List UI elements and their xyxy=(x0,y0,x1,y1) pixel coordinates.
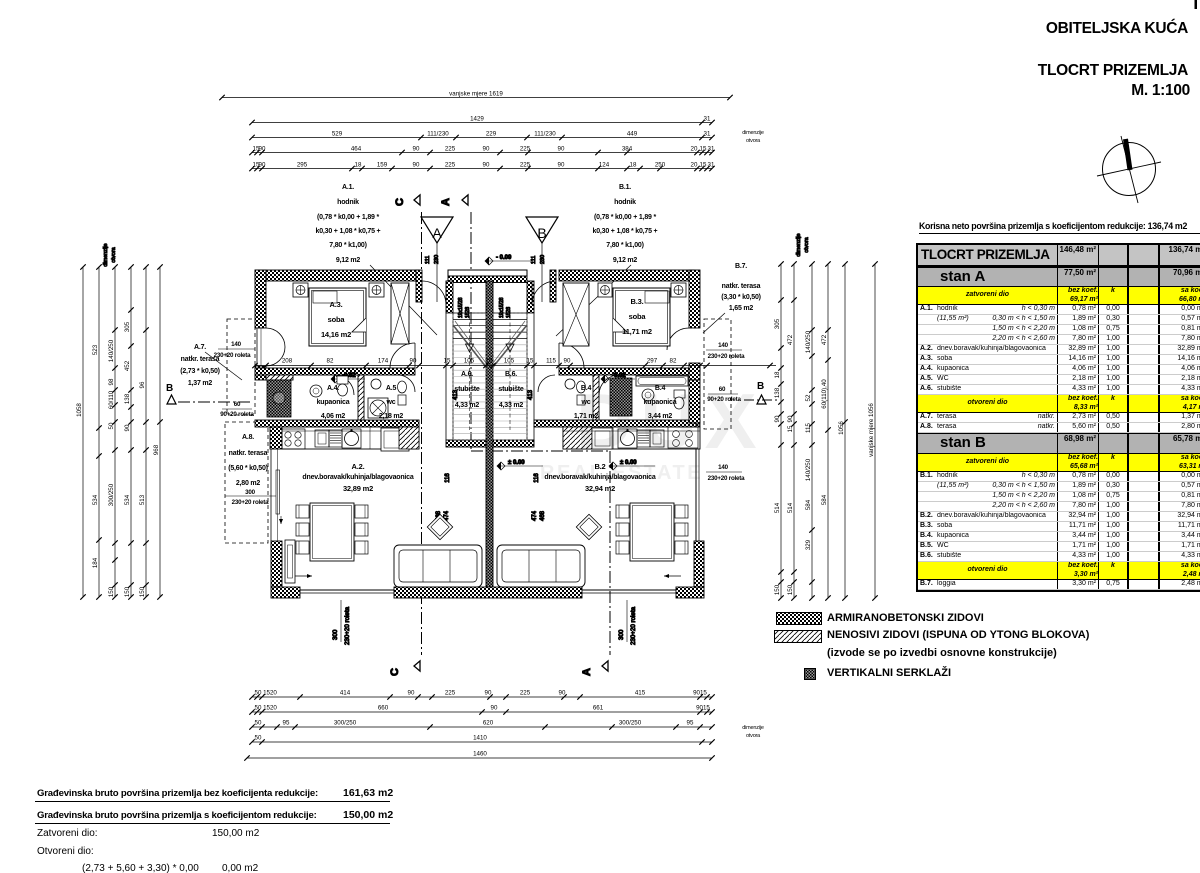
outer wall right kitchen corner xyxy=(689,380,700,423)
svg-text:50: 50 xyxy=(255,705,262,712)
svg-text:115: 115 xyxy=(805,423,812,433)
section line A-A jog xyxy=(471,450,610,452)
svg-text:(3,30 * k0,50): (3,30 * k0,50) xyxy=(721,294,761,301)
korisna neto heading xyxy=(919,221,1200,234)
leader B.7 xyxy=(703,313,725,333)
outer wall right upper xyxy=(689,270,700,328)
svg-text:140: 140 xyxy=(231,341,241,348)
svg-text:k0,30 + 1,08 * k0,75 +: k0,30 + 1,08 * k0,75 + xyxy=(316,228,381,235)
top dimension line 529/111/229 xyxy=(252,137,712,139)
level marker bath A xyxy=(331,375,339,383)
washbasin A4 xyxy=(310,385,322,397)
nightstand A left xyxy=(293,283,308,297)
fridge B xyxy=(563,427,592,449)
outer wall top B xyxy=(559,270,694,281)
right dim line vanjske mjere 1056 xyxy=(874,264,876,598)
svg-text:225: 225 xyxy=(445,690,456,697)
svg-text:50: 50 xyxy=(255,690,262,697)
svg-text:otvora: otvora xyxy=(746,733,761,739)
svg-text:534: 534 xyxy=(124,494,131,505)
left dim line 1058 xyxy=(82,267,84,597)
svg-text:B.6.: B.6. xyxy=(505,371,517,378)
outer wall top A xyxy=(255,270,419,281)
bottom left corner wall xyxy=(271,587,300,598)
bottom left corner wall vertical xyxy=(271,541,282,587)
svg-text:90: 90 xyxy=(774,415,781,422)
svg-text:90: 90 xyxy=(124,424,131,431)
svg-text:90: 90 xyxy=(559,690,566,697)
terrace A.8 dashed outline xyxy=(225,422,268,543)
svg-text:584: 584 xyxy=(821,494,828,505)
svg-text:230+20 roleta: 230+20 roleta xyxy=(708,475,746,482)
svg-text:90+20 roleta: 90+20 roleta xyxy=(220,411,254,418)
left dim line 140-250 col xyxy=(114,267,116,597)
svg-text:90: 90 xyxy=(413,145,420,152)
svg-text:dimenzije: dimenzije xyxy=(742,725,764,731)
right dim line 140-250/115 xyxy=(811,264,813,598)
door jamb wall B entry xyxy=(550,270,556,302)
svg-text:C: C xyxy=(394,198,406,206)
svg-text:225: 225 xyxy=(520,145,531,152)
door A balcony french upper xyxy=(256,328,258,366)
svg-text:452: 452 xyxy=(124,360,131,371)
svg-text:15: 15 xyxy=(700,145,707,152)
kitchen counter B xyxy=(563,427,700,449)
svg-text:32,89 m2: 32,89 m2 xyxy=(343,484,373,493)
svg-text:225: 225 xyxy=(445,161,456,168)
sofa A xyxy=(394,545,482,587)
svg-text:A: A xyxy=(581,668,593,676)
svg-text:90: 90 xyxy=(485,690,492,697)
svg-text:A.5: A.5 xyxy=(386,385,397,392)
svg-text:31: 31 xyxy=(704,115,711,122)
left dim line 523/534/184 xyxy=(98,267,100,597)
right dim line 1056 xyxy=(844,264,846,598)
svg-text:413: 413 xyxy=(528,389,534,400)
outer wall right mid xyxy=(689,363,700,380)
svg-text:18: 18 xyxy=(355,161,362,168)
top dimension line 1429+31 xyxy=(252,122,712,124)
svg-text:dnev.boravak/kuhinja/blagovaon: dnev.boravak/kuhinja/blagovaonica xyxy=(302,474,413,481)
svg-text:2,18 m2: 2,18 m2 xyxy=(379,413,404,420)
svg-text:529: 529 xyxy=(332,130,343,137)
svg-text:A.8.: A.8. xyxy=(242,434,254,441)
bathroom bottom wall A xyxy=(255,420,419,427)
sliding door bottom right xyxy=(664,575,681,577)
svg-text:111/230: 111/230 xyxy=(427,130,449,137)
svg-text:(0,78 * k0,00 + 1,89 *: (0,78 * k0,00 + 1,89 * xyxy=(317,214,379,221)
door B bedroom xyxy=(559,343,584,368)
svg-text:20: 20 xyxy=(691,145,698,152)
svg-text:140/250: 140/250 xyxy=(805,330,812,353)
svg-text:B.7.: B.7. xyxy=(735,263,747,270)
svg-text:31: 31 xyxy=(704,130,711,137)
svg-text:111: 111 xyxy=(425,256,431,264)
svg-text:otvora: otvora xyxy=(111,246,117,262)
svg-text:150: 150 xyxy=(108,586,115,597)
svg-text:514: 514 xyxy=(787,502,794,513)
svg-text:60: 60 xyxy=(234,401,241,408)
svg-text:otvora: otvora xyxy=(746,138,761,144)
svg-text:1056: 1056 xyxy=(838,421,845,435)
svg-text:32,94 m2: 32,94 m2 xyxy=(585,484,615,493)
svg-text:174: 174 xyxy=(378,358,389,365)
svg-text:14,16 m2: 14,16 m2 xyxy=(321,330,351,339)
svg-text:1528: 1528 xyxy=(465,307,471,318)
hob B xyxy=(668,427,698,448)
nightstand B left xyxy=(598,283,612,297)
bottom right corner wall vertical xyxy=(694,541,704,587)
svg-text:60(110),40: 60(110),40 xyxy=(821,379,828,409)
svg-text:514: 514 xyxy=(774,502,781,513)
svg-text:111: 111 xyxy=(531,256,537,264)
top dimension line 295/18/159 xyxy=(252,168,712,170)
svg-text:534: 534 xyxy=(92,494,99,505)
svg-text:50: 50 xyxy=(255,735,262,742)
svg-text:468: 468 xyxy=(540,510,546,521)
svg-text:9,12 m2: 9,12 m2 xyxy=(336,257,361,264)
svg-text:4,33 m2: 4,33 m2 xyxy=(499,402,524,409)
loggia B.7 dashed outline xyxy=(704,319,731,429)
door A wc xyxy=(398,375,415,392)
svg-text:98: 98 xyxy=(108,378,115,385)
svg-text:B: B xyxy=(537,225,546,241)
bathtub B4 xyxy=(636,376,688,386)
nightstand B right xyxy=(671,283,686,297)
svg-text:vanjske mjere 1056: vanjske mjere 1056 xyxy=(868,403,875,457)
level marker living A xyxy=(497,462,505,470)
washbasin B4 xyxy=(642,389,654,401)
svg-text:90: 90 xyxy=(259,161,266,168)
svg-text:300/250: 300/250 xyxy=(108,483,115,506)
interior wall below bedroom B xyxy=(559,368,700,375)
svg-text:250: 250 xyxy=(655,161,666,168)
leader B.1 xyxy=(556,265,631,336)
svg-text:1,65 m2: 1,65 m2 xyxy=(729,305,754,312)
svg-text:9015: 9015 xyxy=(693,690,707,697)
compass north arrow xyxy=(1097,136,1161,203)
svg-text:90: 90 xyxy=(564,358,571,365)
svg-text:230+20 roleta: 230+20 roleta xyxy=(344,606,351,645)
legend: reinforced concrete walls xyxy=(776,612,822,625)
svg-text:2,80 m2: 2,80 m2 xyxy=(236,480,261,487)
svg-text:523: 523 xyxy=(92,344,99,355)
svg-text:19x15/28: 19x15/28 xyxy=(499,297,505,318)
svg-text:295: 295 xyxy=(297,161,308,168)
svg-text:305: 305 xyxy=(774,318,781,329)
svg-text:18: 18 xyxy=(630,161,637,168)
svg-text:hodnik: hodnik xyxy=(614,199,636,206)
armchair B rotated xyxy=(576,514,601,539)
svg-text:660: 660 xyxy=(378,705,389,712)
svg-text:natkr. terasa: natkr. terasa xyxy=(722,283,761,290)
svg-text:A: A xyxy=(432,225,442,241)
elevation marker triangle A xyxy=(421,217,453,243)
door A entry xyxy=(422,281,446,305)
bottom dim line 414/225 xyxy=(252,696,712,698)
svg-text:90: 90 xyxy=(483,161,490,168)
svg-text:- 0.09: - 0.09 xyxy=(496,255,512,261)
svg-text:384: 384 xyxy=(622,145,633,152)
door A balcony french lower xyxy=(266,347,285,366)
svg-text:1520: 1520 xyxy=(263,690,277,697)
staircase A.6 treads xyxy=(453,313,486,440)
svg-text:225: 225 xyxy=(445,145,456,152)
kitchen divider lines A xyxy=(282,430,419,432)
outer wall left mid xyxy=(255,366,266,380)
dining table B xyxy=(630,503,674,561)
door B entry xyxy=(532,281,556,305)
svg-text:300/250: 300/250 xyxy=(334,720,357,727)
level marker bath B xyxy=(601,375,609,383)
svg-text:A.6.: A.6. xyxy=(461,371,473,378)
svg-text:stubište: stubište xyxy=(454,386,480,393)
svg-text:B: B xyxy=(166,383,173,394)
svg-text:k0,30 + 1,08 * k0,75 +: k0,30 + 1,08 * k0,75 + xyxy=(593,228,658,235)
svg-text:140: 140 xyxy=(718,342,728,349)
svg-text:230: 230 xyxy=(540,255,546,264)
svg-text:329: 329 xyxy=(805,539,812,550)
svg-text:9015: 9015 xyxy=(696,705,710,712)
fridge A xyxy=(381,428,409,451)
svg-text:15: 15 xyxy=(700,161,707,168)
svg-text:82: 82 xyxy=(670,358,677,365)
svg-text:115: 115 xyxy=(546,358,556,365)
svg-text:513: 513 xyxy=(139,494,146,505)
sink A xyxy=(315,430,329,447)
svg-text:159: 159 xyxy=(377,161,388,168)
door A bedroom xyxy=(390,343,415,368)
bathroom partition B45 xyxy=(593,375,599,420)
sliding door bottom left xyxy=(295,575,312,577)
left dim line 305/452/138 xyxy=(130,267,132,597)
svg-text:230+20 roleta: 230+20 roleta xyxy=(630,606,637,645)
left dim line 968 xyxy=(159,267,161,597)
interior wall below bedroom A xyxy=(255,368,415,375)
top dimension line 464/90/225 xyxy=(252,152,712,154)
svg-text:15: 15 xyxy=(486,358,493,365)
svg-text:50: 50 xyxy=(255,720,262,727)
svg-text:90: 90 xyxy=(413,161,420,168)
svg-text:C: C xyxy=(389,668,401,676)
svg-text:A: A xyxy=(440,198,452,206)
outer wall left upper xyxy=(255,270,266,328)
wardrobe B xyxy=(563,283,589,346)
top dimension line vanjske mjere 1619 xyxy=(222,97,730,99)
svg-text:300: 300 xyxy=(332,629,339,640)
svg-text:1528: 1528 xyxy=(506,307,512,318)
svg-text:105: 105 xyxy=(504,358,515,365)
svg-text:(5,60 * k0,50): (5,60 * k0,50) xyxy=(228,465,268,472)
svg-text:584: 584 xyxy=(805,499,812,510)
svg-text:414: 414 xyxy=(340,690,351,697)
svg-text:1460: 1460 xyxy=(473,751,487,758)
svg-text:474: 474 xyxy=(532,510,538,521)
svg-text:464: 464 xyxy=(351,145,362,152)
bottom dim line 300-250/620 xyxy=(252,726,712,728)
kitchen divider lines B xyxy=(563,430,700,432)
svg-text:96: 96 xyxy=(139,381,146,388)
svg-text:dimenzije: dimenzije xyxy=(796,233,802,256)
svg-text:90: 90 xyxy=(483,145,490,152)
level marker living B xyxy=(609,462,617,470)
svg-text:90: 90 xyxy=(410,358,417,365)
right dim line 472/514 xyxy=(793,264,795,598)
svg-text:90: 90 xyxy=(491,705,498,712)
svg-text:(0,78 * k0,00 + 1,89 *: (0,78 * k0,00 + 1,89 * xyxy=(594,214,656,221)
bottom left text block xyxy=(35,801,390,802)
svg-text:90: 90 xyxy=(408,690,415,697)
svg-text:230+20 roleta: 230+20 roleta xyxy=(214,352,252,359)
bed A xyxy=(309,288,366,346)
svg-text:449: 449 xyxy=(627,130,638,137)
svg-text:138: 138 xyxy=(774,387,781,398)
svg-text:208: 208 xyxy=(282,358,293,365)
svg-text:15: 15 xyxy=(527,358,534,365)
bottom wall center xyxy=(394,587,582,598)
svg-text:18: 18 xyxy=(774,371,781,378)
door B wc xyxy=(538,375,555,392)
stair bottom wall B xyxy=(493,440,534,447)
sofa B xyxy=(497,545,585,587)
svg-text:4,06 m2: 4,06 m2 xyxy=(321,413,346,420)
svg-text:1520: 1520 xyxy=(263,705,277,712)
svg-text:1,37 m2: 1,37 m2 xyxy=(188,380,213,387)
left dim line 513 xyxy=(145,267,147,597)
svg-text:A.7.: A.7. xyxy=(194,344,206,351)
svg-text:7,80 * k1,00): 7,80 * k1,00) xyxy=(606,242,644,249)
washbasin B5 xyxy=(565,379,575,389)
door A bathroom xyxy=(334,375,354,395)
bed B xyxy=(613,288,670,346)
svg-text:52: 52 xyxy=(805,394,812,401)
svg-text:225: 225 xyxy=(520,690,531,697)
svg-text:620: 620 xyxy=(483,720,494,727)
party wall xyxy=(486,281,493,587)
svg-text:wc: wc xyxy=(386,399,396,406)
svg-text:1429: 1429 xyxy=(470,115,484,122)
bathroom bottom wall B xyxy=(534,420,700,427)
svg-text:138: 138 xyxy=(124,393,131,404)
elevation marker triangle B xyxy=(526,217,558,243)
stair wall left A xyxy=(446,281,453,313)
legend: non load-bearing walls xyxy=(774,630,822,643)
svg-text:472: 472 xyxy=(821,334,828,345)
svg-text:DUX: DUX xyxy=(576,377,765,465)
svg-text:90: 90 xyxy=(787,415,794,422)
stair side lines A xyxy=(446,313,453,440)
svg-text:(2,73 * k0,50): (2,73 * k0,50) xyxy=(180,368,220,375)
svg-text:150: 150 xyxy=(124,586,131,597)
toilet B5 xyxy=(577,395,585,405)
section line B-B right xyxy=(744,399,778,401)
svg-text:661: 661 xyxy=(593,705,604,712)
svg-text:REAL ESTATE: REAL ESTATE xyxy=(540,462,703,484)
svg-text:60/110: 60/110 xyxy=(108,390,115,409)
leader A.1 xyxy=(370,265,437,335)
bottom dim line 660/661 xyxy=(252,711,712,713)
shower tile A xyxy=(267,380,291,417)
svg-text:otvora: otvora xyxy=(804,236,810,252)
svg-text:82: 82 xyxy=(327,358,334,365)
dining chairs B xyxy=(616,505,629,518)
svg-text:B.1.: B.1. xyxy=(619,184,631,191)
svg-text:297: 297 xyxy=(647,358,658,365)
svg-text:soba: soba xyxy=(328,315,346,324)
outer wall left kitchen corner xyxy=(270,427,282,449)
washbasin A5 xyxy=(371,379,381,389)
terrace A.7 dashed outline xyxy=(227,319,255,415)
svg-text:hodnik: hodnik xyxy=(337,199,359,206)
svg-text:soba: soba xyxy=(629,312,647,321)
area table xyxy=(916,243,1200,592)
level marker porch xyxy=(485,257,493,265)
legend: vertical ring beams xyxy=(804,668,816,680)
svg-text:95: 95 xyxy=(687,720,694,727)
svg-text:230+20 roleta: 230+20 roleta xyxy=(708,353,746,360)
section line A-A lower xyxy=(609,451,611,655)
svg-text:1058: 1058 xyxy=(76,403,83,417)
svg-text:B.3.: B.3. xyxy=(631,297,644,306)
door B bathroom xyxy=(599,375,619,395)
stair wall right B xyxy=(527,281,534,313)
title block top right xyxy=(900,20,1188,38)
svg-text:124: 124 xyxy=(599,161,610,168)
svg-text:90: 90 xyxy=(558,145,565,152)
svg-text:140: 140 xyxy=(718,464,728,471)
svg-text:150: 150 xyxy=(787,584,794,595)
door B loggia xyxy=(667,328,689,350)
nightstand A right xyxy=(369,283,384,297)
svg-text:230+20 roleta: 230+20 roleta xyxy=(232,499,270,506)
svg-text:9,12 m2: 9,12 m2 xyxy=(613,257,638,264)
hob A xyxy=(282,429,305,449)
svg-text:stubište: stubište xyxy=(498,386,524,393)
svg-text:50: 50 xyxy=(108,422,115,429)
tv bench A xyxy=(285,540,295,583)
outer wall top porch xyxy=(448,270,527,276)
right dim line 305/18/138/90/514 xyxy=(780,264,782,598)
svg-text:140/250: 140/250 xyxy=(805,458,812,481)
svg-text:20: 20 xyxy=(691,161,698,168)
svg-text:19x15/28: 19x15/28 xyxy=(458,297,464,318)
section line B-B left xyxy=(178,401,252,403)
svg-text:11,71 m2: 11,71 m2 xyxy=(622,327,652,336)
svg-text:229: 229 xyxy=(486,130,497,137)
svg-text:natkr. terasa: natkr. terasa xyxy=(229,450,268,457)
window right living xyxy=(695,423,697,541)
svg-text:230: 230 xyxy=(434,255,440,264)
stair bottom wall A xyxy=(446,440,486,447)
toilet B4 xyxy=(674,390,685,398)
svg-text:kupaonica: kupaonica xyxy=(317,399,350,406)
svg-text:95: 95 xyxy=(283,720,290,727)
svg-text:111/230: 111/230 xyxy=(534,130,556,137)
svg-text:150: 150 xyxy=(774,584,781,595)
dining chairs A xyxy=(296,505,309,518)
svg-text:140/250: 140/250 xyxy=(108,339,115,362)
bathroom partition A tile wall xyxy=(266,375,293,380)
svg-text:968: 968 xyxy=(153,444,160,455)
svg-text:± 0.00: ± 0.00 xyxy=(508,460,525,466)
toilet A4 xyxy=(337,376,348,384)
svg-text:415: 415 xyxy=(635,690,646,697)
shower tile B xyxy=(610,378,632,416)
bottom dim line 1460 xyxy=(247,757,712,759)
svg-text:31: 31 xyxy=(708,161,715,168)
section line A-A upper xyxy=(470,212,472,451)
svg-text:116: 116 xyxy=(445,473,451,483)
